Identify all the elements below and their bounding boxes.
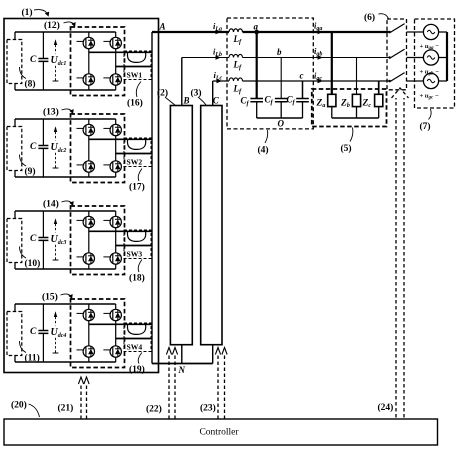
svg-text:c: c xyxy=(300,71,304,81)
ac source uga xyxy=(423,24,438,39)
svg-text:Cf: Cf xyxy=(287,95,296,107)
inductor Lf phase a xyxy=(229,29,243,32)
wire: grid neutral bus xyxy=(446,32,448,81)
wire: load tap c xyxy=(378,81,380,94)
svg-text:C: C xyxy=(30,327,37,337)
H-bridge module 4 xyxy=(7,299,152,368)
svg-text:(12): (12) xyxy=(44,20,60,31)
H-bridge module 3 xyxy=(7,206,152,275)
svg-text:C: C xyxy=(30,142,37,152)
control arrow (22) to phase B stack xyxy=(169,355,175,420)
phase B converter stack (2) xyxy=(170,106,192,345)
svg-text:a: a xyxy=(254,22,259,32)
svg-text:(11): (11) xyxy=(25,353,40,364)
svg-text:(21): (21) xyxy=(58,403,74,414)
svg-text:(2): (2) xyxy=(157,88,168,99)
svg-text:(22): (22) xyxy=(146,404,162,415)
wire: phase B stack lead xyxy=(181,58,183,364)
svg-text:(13): (13) xyxy=(43,107,59,118)
svg-text:(5): (5) xyxy=(341,143,352,154)
svg-text:(24): (24) xyxy=(378,402,394,413)
svg-text:igb: igb xyxy=(314,46,322,58)
grid breaker blade phase b xyxy=(389,49,404,58)
svg-text:+ uga −: + uga − xyxy=(420,43,440,51)
svg-text:(15): (15) xyxy=(42,292,58,303)
svg-text:(9): (9) xyxy=(25,166,36,177)
svg-text:SW4: SW4 xyxy=(127,343,143,352)
svg-text:(14): (14) xyxy=(43,199,59,210)
H-bridge module 2 xyxy=(7,114,152,183)
svg-text:SW2: SW2 xyxy=(127,158,143,167)
svg-text:(6): (6) xyxy=(364,12,375,23)
svg-text:(18): (18) xyxy=(129,273,145,284)
wire: neutral link N xyxy=(152,363,213,365)
svg-text:iLb: iLb xyxy=(213,47,222,59)
svg-text:Controller: Controller xyxy=(199,428,239,438)
svg-text:(19): (19) xyxy=(129,364,145,375)
phase C converter stack (3) xyxy=(201,106,222,345)
grid breaker blade phase a xyxy=(389,24,404,33)
H-bridge module 1 xyxy=(7,27,152,96)
svg-text:(1): (1) xyxy=(22,7,33,18)
capacitor Cf phase b xyxy=(280,58,282,99)
svg-text:(10): (10) xyxy=(25,258,41,269)
wire: load neutral rail xyxy=(332,107,379,118)
svg-text:iLa: iLa xyxy=(213,21,222,33)
svg-text:iga: iga xyxy=(314,21,322,33)
grid breaker dashed box (6) xyxy=(387,19,407,90)
svg-text:iLc: iLc xyxy=(214,70,223,82)
svg-text:C: C xyxy=(213,96,220,106)
load Zc resistor box xyxy=(375,94,383,106)
current arrow xyxy=(318,55,323,59)
control arrow (23) to phase C stack xyxy=(218,355,225,420)
inductor Lf phase b xyxy=(229,54,243,57)
svg-text:igc: igc xyxy=(314,71,322,83)
svg-text:(7): (7) xyxy=(420,121,431,132)
svg-text:(3): (3) xyxy=(191,88,202,99)
wire: phase b line xyxy=(182,57,389,59)
svg-text:+ ugc −: + ugc − xyxy=(420,93,439,101)
svg-text:B: B xyxy=(183,96,190,106)
svg-text:Lf: Lf xyxy=(233,34,243,46)
current arrow xyxy=(318,30,323,34)
wire: phase c line xyxy=(213,80,389,82)
svg-text:SW1: SW1 xyxy=(127,71,143,80)
svg-text:Za: Za xyxy=(316,99,326,110)
capacitor Cf phase c xyxy=(302,81,304,99)
svg-text:Lf: Lf xyxy=(233,60,243,72)
wire: grid lead ga xyxy=(407,31,448,33)
svg-text:C: C xyxy=(30,234,37,244)
grid dashed box (7) xyxy=(415,19,455,108)
current arrow xyxy=(216,55,221,59)
svg-text:(16): (16) xyxy=(127,98,143,109)
wire: grid lead gc xyxy=(407,80,448,82)
control arrow (21) to module gates xyxy=(81,384,87,419)
svg-text:(23): (23) xyxy=(200,403,216,414)
svg-text:Zb: Zb xyxy=(340,99,350,110)
current arrow xyxy=(216,30,221,34)
LC filter dashed box (4) xyxy=(227,18,313,129)
svg-text:b: b xyxy=(277,47,282,57)
svg-text:+ ugb −: + ugb − xyxy=(420,69,440,77)
current arrow xyxy=(318,79,323,83)
controller box (20) xyxy=(4,419,438,445)
wire: phase C stack lead xyxy=(212,81,214,364)
control arrow (24) to grid breaker xyxy=(396,98,404,418)
svg-text:Lf: Lf xyxy=(233,84,243,96)
ac source ugc xyxy=(423,73,438,88)
grid breaker blade phase c xyxy=(389,73,404,82)
load Za resistor box xyxy=(328,94,336,106)
ac source ugb xyxy=(423,50,438,65)
inductor Lf phase c xyxy=(229,78,243,81)
outer converter box (1) xyxy=(4,19,159,373)
svg-text:(4): (4) xyxy=(258,145,269,156)
wire: load tap b xyxy=(356,58,358,95)
svg-text:(20): (20) xyxy=(11,400,27,411)
svg-text:C: C xyxy=(30,55,37,65)
local load dashed box (5) xyxy=(312,89,387,127)
capacitor Cf phase a xyxy=(256,32,258,99)
svg-text:(17): (17) xyxy=(129,182,145,193)
breaker contact dots xyxy=(388,31,390,33)
wire: load tap a xyxy=(331,32,333,94)
svg-text:Zc: Zc xyxy=(362,99,372,110)
svg-text:(8): (8) xyxy=(25,79,36,90)
load Zb resistor box xyxy=(352,94,360,106)
node a junction dot xyxy=(254,30,259,35)
wire: phase A cascade bus xyxy=(151,32,153,364)
svg-text:A: A xyxy=(159,22,166,32)
wire: grid lead gb xyxy=(407,57,448,59)
svg-text:Cf: Cf xyxy=(241,96,250,108)
current arrow xyxy=(217,79,222,83)
wire: filter star point O xyxy=(257,117,303,119)
wire: phase a line xyxy=(152,31,389,33)
svg-text:N: N xyxy=(178,365,186,375)
svg-text:SW3: SW3 xyxy=(127,250,143,259)
svg-text:Cf: Cf xyxy=(265,95,274,107)
svg-text:O: O xyxy=(278,119,285,129)
